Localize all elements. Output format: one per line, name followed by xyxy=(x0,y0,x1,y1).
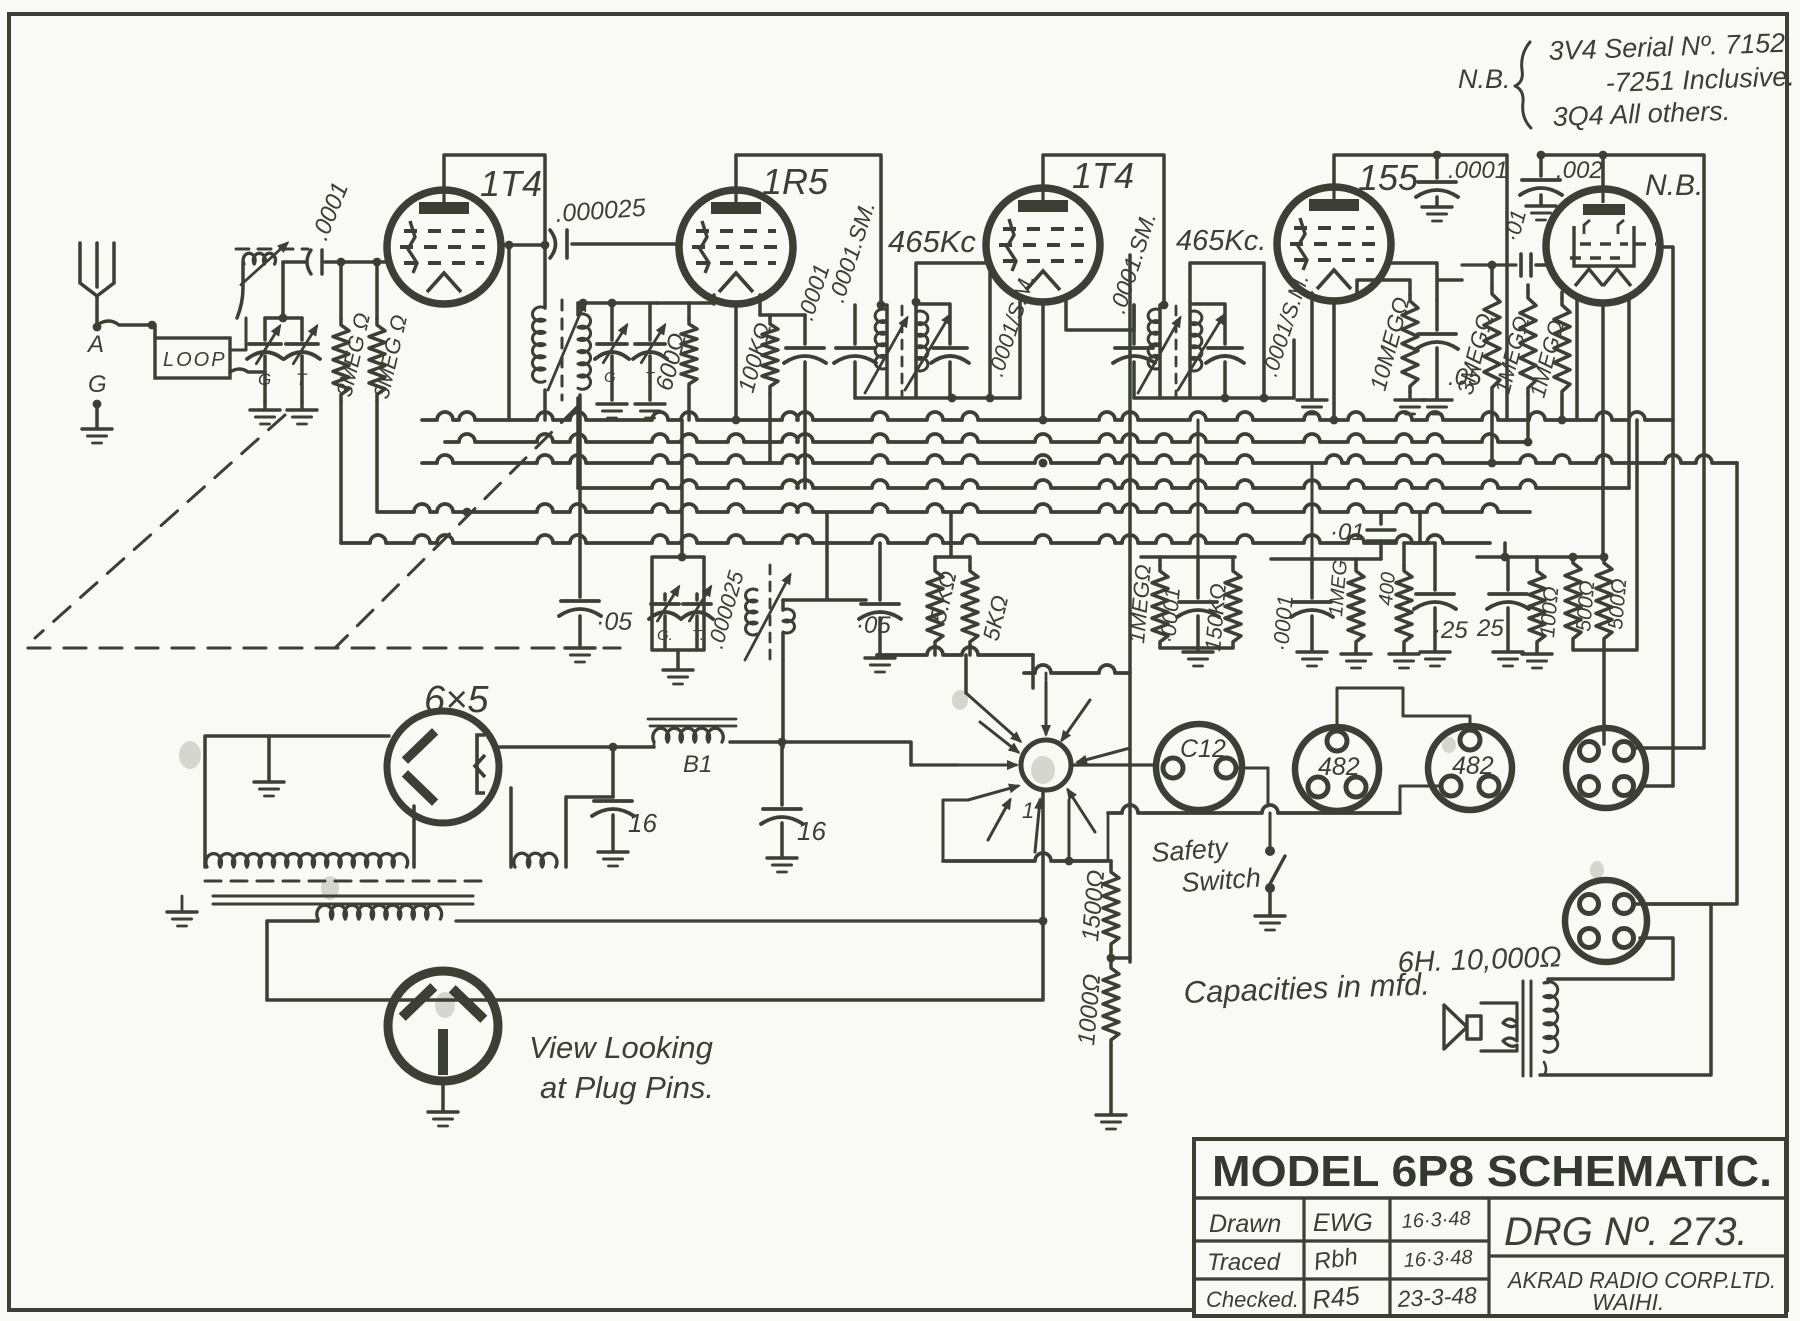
ground dropper xyxy=(1096,1113,1126,1116)
hub arrows xyxy=(964,655,968,693)
svg-text:482: 482 xyxy=(1318,753,1360,781)
capacitor .0001 to ground xyxy=(1435,155,1439,178)
wire padder to B1 xyxy=(781,660,785,747)
svg-text:·05: ·05 xyxy=(856,612,891,639)
arrow IF2 primary tuning xyxy=(1138,318,1180,393)
wire 6X5 plate left xyxy=(205,736,389,867)
wire output heater line xyxy=(1108,805,1400,813)
resistor 400 xyxy=(1402,543,1406,565)
svg-text:10MEGΩ: 10MEGΩ xyxy=(1365,294,1415,393)
decoupling rail 2 xyxy=(1271,557,1381,561)
svg-text:.0001.SM.: .0001.SM. xyxy=(1104,209,1161,317)
resistor 1000 ohm xyxy=(1103,962,1119,1046)
wire .01 to V5 grid xyxy=(1536,263,1549,267)
arrow IF1 primary tuning xyxy=(865,318,907,393)
svg-text:16·3·48: 16·3·48 xyxy=(1403,1246,1473,1272)
ground under T osc xyxy=(635,402,665,405)
wire V3 plate loop xyxy=(1043,155,1164,305)
IF2 tuning capacitor xyxy=(1193,304,1225,344)
svg-text:1R5: 1R5 xyxy=(762,161,829,202)
wire V1 plate loop xyxy=(444,155,545,245)
resistor 1 MEG (bank2) xyxy=(1379,541,1383,559)
svg-text:·01: ·01 xyxy=(1499,207,1531,244)
svg-text:·0001: ·0001 xyxy=(1155,586,1185,644)
wire loop wiring xyxy=(155,325,265,372)
wire plug line to hub xyxy=(267,790,1043,1000)
svg-text:T: T xyxy=(296,370,308,389)
variable capacitor G padder xyxy=(663,594,667,600)
svg-text:T.: T. xyxy=(692,627,704,644)
ground HT centre tap xyxy=(267,736,271,780)
capacitor .05 osc xyxy=(878,543,882,600)
variable capacitor G (tuning gang, aerial) xyxy=(263,318,267,340)
svg-text:465Kc.: 465Kc. xyxy=(1176,225,1266,257)
variable capacitor T padder xyxy=(695,594,699,600)
svg-text:100Ω: 100Ω xyxy=(1536,586,1563,639)
resistor 150K xyxy=(1231,557,1235,565)
svg-text:.0001: .0001 xyxy=(307,178,355,244)
V3 legs xyxy=(1043,295,1134,420)
svg-text:EWG: EWG xyxy=(1313,1209,1373,1237)
tube V4 1S5 detector xyxy=(1277,187,1391,301)
svg-text:3V4 Serial Nº. 7152: 3V4 Serial Nº. 7152 xyxy=(1548,28,1785,66)
decoupling rail 1 xyxy=(1141,555,1235,559)
svg-text:-7251 Inclusive.: -7251 Inclusive. xyxy=(1605,61,1795,98)
svg-text:1T4: 1T4 xyxy=(1072,155,1134,196)
svg-text:·01: ·01 xyxy=(1330,519,1365,546)
wire hub to C12 xyxy=(1071,763,1155,766)
svg-text:16: 16 xyxy=(628,808,657,838)
wire drop to .05 xyxy=(578,395,582,597)
ground under trimmer T xyxy=(300,402,304,408)
wire to V1 grid xyxy=(325,260,388,264)
capacitor .0001SM (IF2 primary) xyxy=(1132,305,1136,344)
capacitor .05 (AVC filter) xyxy=(561,599,599,603)
speaker socket hub xyxy=(1021,740,1071,790)
mains plug xyxy=(388,971,498,1081)
bus wire filament line 1 xyxy=(445,434,1528,442)
filament dropper rail xyxy=(1537,555,1604,559)
capacitor .0001 (V2) xyxy=(803,315,807,344)
svg-text:5KΩ: 5KΩ xyxy=(978,593,1014,643)
svg-text:G.: G. xyxy=(657,627,673,644)
svg-text:Safety: Safety xyxy=(1150,833,1230,868)
IF2 primary rail xyxy=(1160,305,1164,398)
wire to output hub xyxy=(877,647,1033,655)
wire antenna to loop xyxy=(97,321,152,325)
svg-text:482: 482 xyxy=(1452,752,1494,780)
wire hub left xyxy=(911,763,958,766)
bus wire ground line xyxy=(341,535,1490,543)
IF1 secondary rail xyxy=(914,302,918,396)
resistor 1500 ohm xyxy=(1109,861,1113,866)
svg-text:Drawn: Drawn xyxy=(1209,1210,1281,1238)
ground V4 cathode xyxy=(1297,398,1327,401)
wire right loop to speaker socket xyxy=(1646,463,1737,904)
capacitor 16 mfd xyxy=(611,747,615,797)
output transformer core xyxy=(1523,981,1531,1076)
socket 4-pin lower xyxy=(1565,880,1647,962)
svg-text:500Ω: 500Ω xyxy=(1604,578,1631,631)
wire to V2 grid xyxy=(572,242,680,246)
loudspeaker xyxy=(1444,1005,1481,1049)
loop aerial box xyxy=(155,338,230,378)
6X5 filament legs xyxy=(414,788,511,867)
capacitor .01 coupling xyxy=(1462,263,1516,266)
IF1 core xyxy=(901,306,904,396)
capacitor .002 to ground xyxy=(1539,155,1543,176)
dashed tuning gang link left xyxy=(35,415,285,638)
resistor 500 ohm xyxy=(1565,557,1581,645)
svg-text:1MEG: 1MEG xyxy=(1325,559,1352,617)
resistor 500 ohm second xyxy=(1596,557,1612,645)
svg-text:3MEG Ω: 3MEG Ω xyxy=(332,310,376,399)
transformer core xyxy=(205,880,485,883)
transformer secondary winding xyxy=(317,905,442,919)
svg-text:MODEL 6P8 SCHEMATIC.: MODEL 6P8 SCHEMATIC. xyxy=(1212,1147,1772,1196)
tube V3 1T4 IF amplifier xyxy=(986,188,1100,302)
svg-text:.0001.SM.: .0001.SM. xyxy=(823,198,880,306)
ground transformer frame xyxy=(167,910,197,913)
svg-text:·0001: ·0001 xyxy=(1268,594,1298,652)
svg-text:View Looking: View Looking xyxy=(529,1030,713,1065)
svg-text:5.KΩ: 5.KΩ xyxy=(925,569,962,626)
bus junction dots xyxy=(732,416,741,425)
IF2 core xyxy=(1175,306,1178,396)
svg-text:LOOP: LOOP xyxy=(163,349,227,371)
svg-text:1: 1 xyxy=(1022,798,1034,823)
capacitor 25 xyxy=(1506,557,1510,590)
svg-text:25: 25 xyxy=(1476,615,1504,642)
svg-text:G: G xyxy=(88,371,107,398)
svg-text:16: 16 xyxy=(797,816,826,846)
svg-text:.000025: .000025 xyxy=(703,567,749,651)
svg-text:WAIHI.: WAIHI. xyxy=(1592,1289,1664,1315)
svg-text:.0001: .0001 xyxy=(1448,157,1508,184)
IF2 secondary loop xyxy=(1190,263,1264,398)
wire 400/.25 rail xyxy=(1404,512,1435,543)
IF1 secondary loop xyxy=(916,263,990,398)
resistor 600 ohm xyxy=(687,303,691,318)
padder box G T xyxy=(680,420,684,557)
antenna coupling coil xyxy=(237,262,243,318)
svg-text:N.B.: N.B. xyxy=(1458,64,1511,94)
svg-text:400: 400 xyxy=(1375,571,1400,606)
wire C12 to 482 xyxy=(1236,768,1268,806)
wire osc drop xyxy=(783,512,866,600)
svg-text:·25: ·25 xyxy=(1433,617,1468,644)
capacitor .25 xyxy=(1433,543,1437,590)
bus wire B+ line xyxy=(422,412,1673,420)
capacitor .0001 (det) xyxy=(1310,559,1314,598)
wire trimmer rail xyxy=(265,262,302,318)
wire 482 link xyxy=(1337,688,1470,731)
dashed tuning gang link right xyxy=(335,407,577,648)
svg-text:A: A xyxy=(86,331,104,358)
filter choke B1 xyxy=(648,719,736,726)
wire V5 grid loop xyxy=(1541,155,1704,748)
IF1 bottom rail xyxy=(855,396,1020,400)
variable capacitor G osc xyxy=(610,303,614,340)
arrow oscillator tuning xyxy=(548,302,585,390)
svg-text:155: 155 xyxy=(1358,157,1419,198)
variable capacitor T osc xyxy=(648,303,652,340)
svg-text:B1: B1 xyxy=(683,751,712,778)
svg-text:DRG Nº. 273.: DRG Nº. 273. xyxy=(1504,1210,1748,1254)
capacitor .0001SM (V3 grid) xyxy=(1128,255,1132,962)
resistor 1 MEG second xyxy=(1560,292,1564,299)
capacitor .0001 SM (IF1 primary) xyxy=(853,305,857,344)
wire 25/100 rail xyxy=(1477,543,1537,557)
arrow padder xyxy=(745,575,790,660)
wire 500 bottoms xyxy=(1573,420,1637,650)
IF2 secondary rail xyxy=(1188,302,1192,396)
capacitor .0001 antenna xyxy=(283,260,305,264)
svg-text:at Plug Pins.: at Plug Pins. xyxy=(540,1070,714,1105)
tube 6X5 rectifier xyxy=(387,711,499,823)
wire 600 ohm rail xyxy=(657,303,714,420)
tube V1 1T4 RF amplifier xyxy=(387,190,501,304)
svg-text:16·3·48: 16·3·48 xyxy=(1401,1207,1471,1233)
connector C12 dial lamp xyxy=(1156,724,1242,810)
svg-text:Switch: Switch xyxy=(1180,863,1261,898)
svg-text:G: G xyxy=(258,370,271,389)
svg-text:23-3-48: 23-3-48 xyxy=(1396,1282,1478,1312)
svg-text:Capacities in mfd.: Capacities in mfd. xyxy=(1183,966,1430,1010)
svg-text:N.B.: N.B. xyxy=(1645,169,1703,202)
trimmer rail G T (osc section) xyxy=(578,301,657,305)
svg-text:6×5: 6×5 xyxy=(424,679,489,721)
wire IF1 to V3 xyxy=(1018,295,1022,398)
ground under gang G xyxy=(263,402,267,408)
arrow IF1 secondary tuning xyxy=(905,315,950,390)
capacitor .000025 coupling xyxy=(550,230,556,258)
resistor 3 MEG (V5 grid) xyxy=(1490,263,1494,288)
svg-text:Checked.: Checked. xyxy=(1206,1287,1299,1312)
capacitor .05 xyxy=(1435,300,1439,330)
title block xyxy=(1194,1139,1786,1316)
wire dropper junction xyxy=(1111,956,1130,960)
svg-text:3Q4 All others.: 3Q4 All others. xyxy=(1552,96,1731,132)
wire 5K rail xyxy=(935,512,970,557)
IF1 tuning capacitor xyxy=(919,304,950,344)
resistor 3 MEG (grid) xyxy=(375,262,379,319)
ground under G osc xyxy=(597,402,627,405)
scan stains xyxy=(179,690,1604,1018)
svg-text:465Kc: 465Kc xyxy=(888,224,976,259)
dashed gang horizontal xyxy=(28,647,620,650)
wire 6X5 cathode xyxy=(499,745,654,749)
wire lower socket loop xyxy=(1540,904,1711,1075)
bus wire filament line 2 xyxy=(422,455,1737,463)
ground padder xyxy=(676,650,680,668)
wire secondary left to plug xyxy=(267,921,318,1000)
V4 legs xyxy=(1312,280,1410,420)
wire V1 grid xyxy=(501,243,545,247)
capacitor 16 mfd second xyxy=(730,742,911,765)
bus wire AVC line xyxy=(578,480,1629,488)
svg-text:·05: ·05 xyxy=(596,608,632,636)
svg-text:Traced: Traced xyxy=(1207,1249,1281,1276)
connector 482 second xyxy=(1428,726,1512,810)
wire V2 plate loop xyxy=(736,155,881,305)
resistor 1 MEG (bank) xyxy=(1158,557,1162,565)
wire heater return xyxy=(943,853,1111,861)
resistor 3 MEG (AVC) xyxy=(339,262,343,319)
oscillator coil secondary xyxy=(578,314,591,389)
capacitor .01 (bank top) xyxy=(1379,512,1383,524)
tube V2 1R5 converter xyxy=(679,190,793,304)
IF1 primary rail xyxy=(881,305,887,398)
hub lower arrows xyxy=(943,800,968,861)
ground plug earth pin xyxy=(441,1082,445,1110)
resistor 10 MEG xyxy=(1402,295,1418,392)
socket 4-pin upper xyxy=(1566,728,1646,808)
resistor 1 MEG xyxy=(1526,285,1530,292)
svg-text:.000025: .000025 xyxy=(554,194,646,228)
wire V5 plate to right xyxy=(1660,247,1673,786)
IF2 bottom rail xyxy=(1134,340,1294,398)
capacitor .0001 (bank) xyxy=(1196,557,1200,598)
variable capacitor T (aerial trimmer) xyxy=(300,318,304,340)
svg-text:G: G xyxy=(604,369,616,386)
output transformer winding xyxy=(1544,982,1558,1052)
tube V5 output (3V4/3Q4) N.B. xyxy=(1546,189,1660,303)
svg-text:R45: R45 xyxy=(1310,1280,1361,1315)
bus wire grid return xyxy=(378,504,1530,512)
wire V1 plate drop xyxy=(507,245,511,420)
wire secondary to output xyxy=(456,919,1043,922)
svg-text:1000Ω: 1000Ω xyxy=(1073,973,1106,1047)
resistor 100 ohm xyxy=(1535,557,1539,565)
connector 482 first xyxy=(1295,727,1379,811)
V5 legs xyxy=(1577,296,1629,559)
svg-text:C12: C12 xyxy=(1180,735,1226,763)
svg-text:150KΩ: 150KΩ xyxy=(1200,582,1231,652)
resistor 5K second xyxy=(968,557,972,565)
transformer primary right xyxy=(514,853,557,867)
svg-text:1T4: 1T4 xyxy=(480,163,542,204)
resistor 5K xyxy=(933,557,937,565)
V2 cathode legs xyxy=(714,295,760,420)
wire diode load rail xyxy=(1391,263,1462,300)
oscillator coil primary xyxy=(543,245,547,308)
oscillator coil core xyxy=(561,300,564,400)
transformer primary winding xyxy=(206,854,408,867)
antenna xyxy=(80,243,114,327)
resistor 100K xyxy=(760,315,770,318)
arrow IF2 secondary tuning xyxy=(1178,315,1224,390)
wire V4 plate loop xyxy=(1334,155,1507,420)
svg-text:.002: .002 xyxy=(1556,157,1603,184)
